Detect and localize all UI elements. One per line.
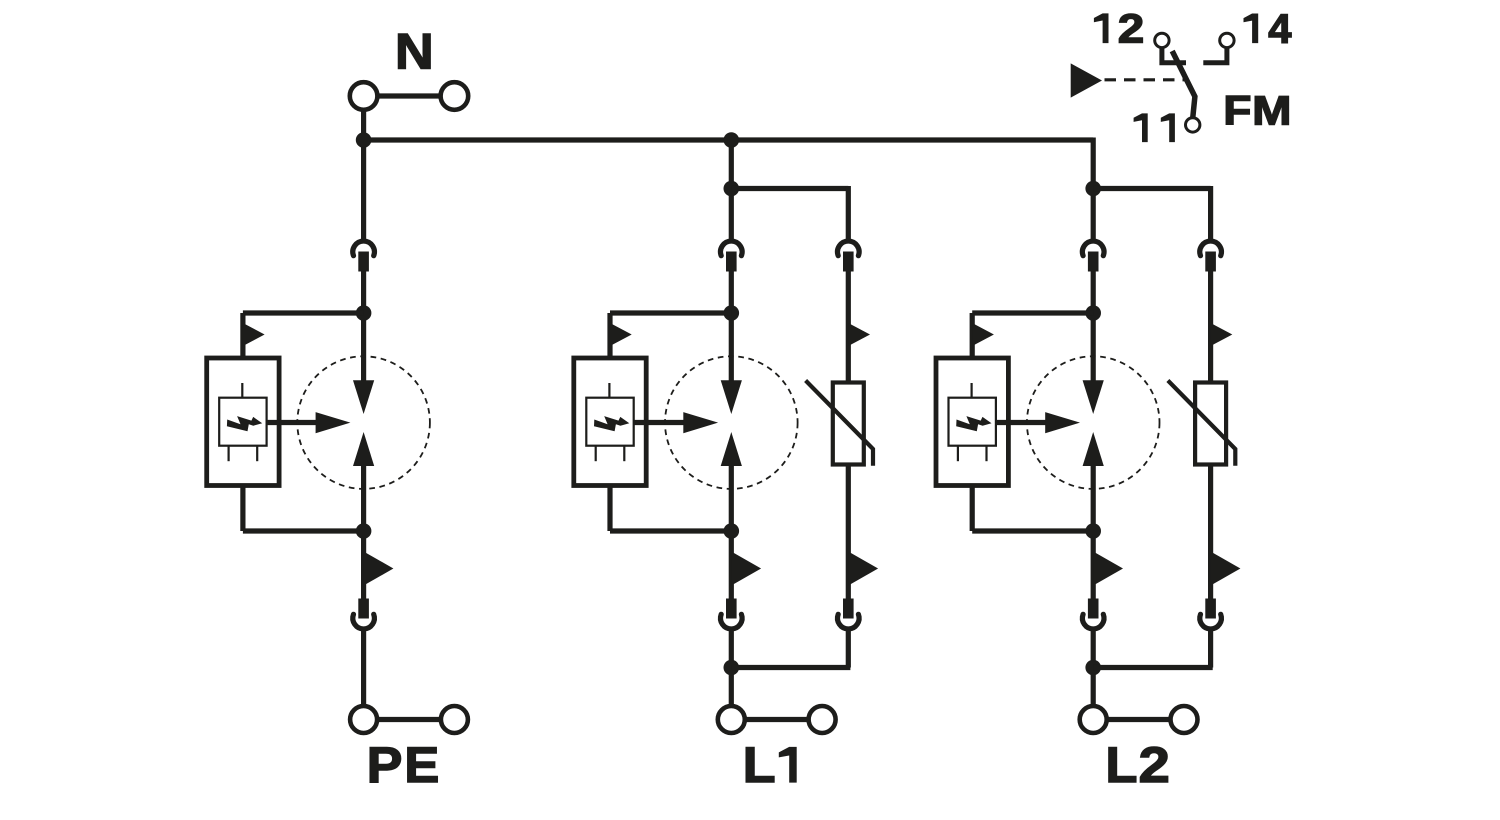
- wire PE loop top: [243, 310, 364, 315]
- plug arrow L1 module: [610, 323, 632, 346]
- wire L2 lower: [1091, 466, 1096, 599]
- plug arrow PE lower: [364, 552, 394, 586]
- svg-text:L: L: [1105, 736, 1137, 793]
- junction dot L1 varistor return: [724, 660, 740, 676]
- trigger arrow PE: [316, 412, 351, 433]
- wire N drop: [361, 111, 366, 143]
- wire PE loop left upper: [240, 313, 245, 358]
- wire PE loop bottom: [243, 528, 364, 533]
- FM contact pin 11: [1186, 118, 1200, 132]
- svg-text:2: 2: [1118, 5, 1145, 51]
- spark gap electrode top L2: [1083, 380, 1104, 414]
- terminal link PE: [364, 717, 455, 722]
- svg-text:N: N: [395, 23, 434, 80]
- wire L1 loop bottom: [610, 528, 731, 533]
- wire L2 varistor return: [1093, 665, 1213, 670]
- spark gap dashed circle PE: [297, 356, 430, 489]
- svg-text:L: L: [743, 736, 776, 793]
- arrester module box PE: [207, 358, 279, 486]
- spark gap electrode top PE: [353, 380, 374, 414]
- thermal disconnect L1 varistor bottom: [838, 599, 860, 629]
- plug arrow L2 varistor lower: [1211, 552, 1241, 586]
- lightning bolt icon L1: [594, 416, 629, 431]
- wire L2 loop top: [972, 310, 1093, 315]
- terminal link L1: [731, 717, 822, 722]
- wire PE upper: [361, 140, 366, 241]
- junction dot L1 loop bottom: [724, 523, 740, 539]
- junction dot bus L1: [724, 132, 740, 148]
- arrester module box L2: [936, 358, 1008, 486]
- wire bus: [364, 137, 1094, 142]
- thermal disconnect PE bottom: [353, 599, 375, 629]
- pin label 11: [1134, 113, 1148, 142]
- wire L1 varistor drop: [846, 186, 851, 241]
- terminal circle L1 right: [809, 706, 836, 733]
- trigger line L1: [634, 420, 685, 425]
- thermal disconnect L1 bottom: [721, 599, 743, 629]
- wire L1 varistor lower: [846, 465, 851, 599]
- pin label 12: [1094, 13, 1109, 43]
- plug arrow L1 varistor lower: [848, 552, 878, 586]
- junction dot PE loop top: [356, 305, 372, 321]
- svg-text:M: M: [1252, 88, 1291, 134]
- plug arrow L1 lower: [731, 552, 761, 586]
- thermal disconnect PE top: [353, 241, 375, 271]
- terminal circle N right: [441, 82, 469, 110]
- spark gap electrode bottom L1: [721, 432, 742, 466]
- wire L2 varistor tap: [1093, 186, 1210, 191]
- junction dot L2 loop top: [1085, 305, 1101, 321]
- wire L1 to terminal: [729, 630, 734, 707]
- wire L1 to spark gap: [729, 272, 734, 382]
- varistor L1: [806, 381, 873, 466]
- plug arrow L2 module: [972, 323, 994, 346]
- wire PE to terminal: [361, 630, 366, 707]
- thermal disconnect L2 bottom: [1082, 599, 1104, 629]
- wire L2 to spark gap: [1091, 272, 1096, 382]
- wire L2 varistor upper: [1208, 272, 1213, 383]
- junction dot L2 varistor tap: [1085, 181, 1101, 197]
- arrester module box L1: [574, 358, 646, 486]
- varistor L2: [1168, 381, 1235, 466]
- svg-text:4: 4: [1268, 5, 1291, 51]
- wire bus corner drop L2: [1091, 138, 1096, 189]
- terminal circle L2 left: [1080, 706, 1107, 733]
- FM contact pin 14: [1220, 33, 1234, 47]
- trigger line PE: [267, 420, 317, 425]
- trigger line L2: [996, 420, 1046, 425]
- thermal disconnect L2 varistor top: [1200, 241, 1222, 271]
- junction dot L1 loop top: [724, 305, 740, 321]
- terminal circle N left: [350, 82, 378, 110]
- wire L2 to terminal: [1091, 630, 1096, 707]
- FM changeover contact: [1071, 48, 1227, 118]
- lightning bolt icon L2: [956, 416, 991, 431]
- terminal circle PE left: [350, 706, 377, 733]
- spark gap dashed circle L1: [665, 356, 798, 489]
- wire L2 loop bottom: [972, 528, 1093, 533]
- junction dot PE loop bottom: [356, 523, 372, 539]
- wire L1 varistor tap: [731, 186, 848, 191]
- svg-text:F: F: [1223, 88, 1251, 134]
- FM contact pin 12: [1155, 33, 1169, 47]
- junction dot N/bus: [356, 132, 372, 148]
- thermal disconnect L2 top: [1082, 241, 1104, 271]
- wire L1 loop top: [610, 310, 731, 315]
- wire L1 varistor return: [731, 665, 850, 670]
- spark gap electrode top L1: [721, 380, 742, 414]
- wire L1 loop left lower: [607, 486, 612, 532]
- wire PE lower: [361, 466, 366, 599]
- wire L1 varistor to return: [846, 630, 851, 668]
- trigger arrow L1: [683, 412, 718, 433]
- wire PE loop left lower: [240, 486, 245, 532]
- spark gap electrode bottom L2: [1083, 432, 1104, 466]
- wire L1 loop left upper: [607, 313, 612, 358]
- terminal circle L1 left: [718, 706, 745, 733]
- plug arrow L2 varistor: [1211, 323, 1233, 346]
- wire L1 varistor upper: [846, 272, 851, 383]
- terminal circle L2 right: [1171, 706, 1198, 733]
- wire L2 varistor drop: [1208, 186, 1213, 241]
- spark gap dashed circle L2: [1027, 356, 1160, 489]
- trigger arrow L2: [1045, 412, 1080, 433]
- junction dot L2 loop bottom: [1085, 523, 1101, 539]
- wire L2 upper: [1091, 189, 1096, 242]
- wire L1 lower: [729, 466, 734, 599]
- terminal circle PE right: [441, 706, 468, 733]
- junction dot L2 varistor return: [1085, 660, 1101, 676]
- plug arrow L2 lower: [1093, 552, 1123, 586]
- svg-text:2: 2: [1139, 736, 1170, 793]
- junction dot L1 varistor tap: [724, 181, 740, 197]
- pin label 14: [1244, 14, 1259, 44]
- wire L2 loop left upper: [970, 313, 975, 358]
- svg-text:E: E: [404, 736, 439, 793]
- terminal link L2: [1093, 717, 1184, 722]
- wire L2 varistor lower: [1208, 465, 1213, 599]
- spark gap electrode bottom PE: [353, 432, 374, 466]
- thermal disconnect L1 varistor top: [838, 241, 860, 271]
- terminal link N: [364, 93, 455, 98]
- svg-text:P: P: [367, 736, 403, 793]
- wire PE to spark gap: [361, 272, 366, 382]
- thermal disconnect L1 top: [721, 241, 743, 271]
- plug arrow L1 varistor: [848, 323, 870, 346]
- wire L2 varistor to return: [1208, 630, 1213, 668]
- lightning bolt icon PE: [227, 416, 262, 431]
- plug arrow PE module: [243, 323, 265, 346]
- wire L2 loop left lower: [970, 486, 975, 532]
- thermal disconnect L2 varistor bottom: [1200, 599, 1222, 629]
- wire L1 upper: [729, 140, 734, 241]
